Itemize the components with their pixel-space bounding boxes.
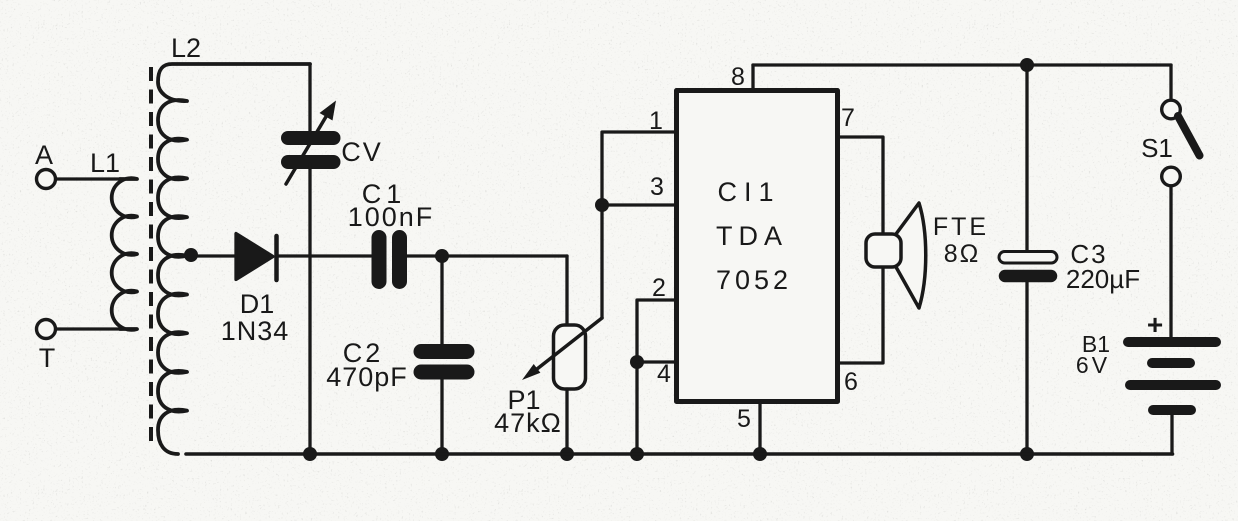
wire S1 top xyxy=(1169,65,1172,100)
wire pin7 to speaker xyxy=(839,137,883,235)
capacitor C2 xyxy=(421,352,467,373)
svg-text:4: 4 xyxy=(657,360,671,388)
speaker FTE horn xyxy=(896,203,926,308)
wire bottom rail xyxy=(186,452,1173,456)
wire C2 bottom xyxy=(440,379,443,454)
wire CV top xyxy=(308,64,311,132)
wire P1 bottom xyxy=(565,389,568,454)
P1 wiper line xyxy=(537,318,602,369)
diode D1 xyxy=(236,234,273,280)
svg-text:2: 2 xyxy=(652,274,666,302)
svg-text:3: 3 xyxy=(650,173,664,201)
svg-text:1N34: 1N34 xyxy=(221,316,290,346)
svg-text:47kΩ: 47kΩ xyxy=(494,408,562,438)
CV arrow xyxy=(286,115,327,184)
wire pin2 net xyxy=(637,300,676,454)
svg-text:CI1: CI1 xyxy=(717,177,780,207)
svg-text:A: A xyxy=(35,140,53,170)
junction dot L2 tap xyxy=(184,248,198,262)
svg-text:1: 1 xyxy=(649,107,663,135)
wire pin8 xyxy=(751,65,754,88)
capacitor C1 xyxy=(379,238,400,282)
capacitor CV plates xyxy=(288,138,334,162)
svg-text:TDA: TDA xyxy=(716,221,788,251)
svg-text:+: + xyxy=(1147,309,1163,340)
wire pin6 to speaker xyxy=(839,266,883,363)
inductor L2 xyxy=(158,64,310,454)
wire C3 bottom xyxy=(1025,282,1028,454)
svg-text:6: 6 xyxy=(844,368,858,396)
svg-text:FTE: FTE xyxy=(933,213,989,241)
wire T to L1 xyxy=(56,327,122,330)
potentiometer P1 body xyxy=(554,325,586,389)
svg-text:7: 7 xyxy=(841,104,855,132)
wire pin3 xyxy=(602,203,676,206)
wire P1 top xyxy=(565,256,568,325)
svg-text:S1: S1 xyxy=(1141,133,1173,163)
wire S1 to B1 xyxy=(1169,186,1172,337)
wire pin1 net xyxy=(602,132,676,205)
inductor L1 xyxy=(112,178,137,330)
svg-text:220µF: 220µF xyxy=(1066,264,1140,294)
svg-text:L2: L2 xyxy=(171,33,201,63)
L2 tap wire xyxy=(186,254,238,257)
wire D1 to C1 xyxy=(277,254,371,257)
wire C2 top xyxy=(440,256,443,345)
speaker FTE box xyxy=(866,234,901,267)
junction dot pin4 xyxy=(630,355,644,369)
svg-text:8Ω: 8Ω xyxy=(944,240,981,268)
core dashed line xyxy=(149,67,153,448)
svg-text:7052: 7052 xyxy=(716,265,792,295)
svg-text:100nF: 100nF xyxy=(348,202,435,232)
battery B1 plates xyxy=(1128,342,1216,410)
svg-text:6V: 6V xyxy=(1076,352,1110,378)
svg-text:T: T xyxy=(39,343,56,373)
svg-text:L1: L1 xyxy=(90,148,120,178)
wire CV bottom to rail xyxy=(308,164,311,454)
D1 cathode bar xyxy=(274,236,279,280)
junction dot pin5 rail xyxy=(753,447,767,461)
junction dot CV rail xyxy=(303,447,317,461)
junction dot C2 bottom xyxy=(435,447,449,461)
wire A to L1 xyxy=(56,177,120,180)
terminal A xyxy=(37,170,56,189)
junction dot pin2 rail xyxy=(630,447,644,461)
terminal T xyxy=(37,320,56,339)
wire top rail xyxy=(753,63,1171,66)
wire C3 top xyxy=(1025,65,1028,252)
op-amp U1 CI1 box xyxy=(677,91,838,402)
svg-text:8: 8 xyxy=(731,63,745,91)
wire B1 bottom xyxy=(1170,414,1173,454)
svg-text:470pF: 470pF xyxy=(326,362,408,392)
capacitor C3 plus plate xyxy=(999,252,1057,264)
junction dot C3 rail xyxy=(1020,447,1034,461)
capacitor C3 minus plate xyxy=(1005,270,1051,283)
svg-text:D1: D1 xyxy=(240,289,275,319)
junction dot pin3 xyxy=(595,198,609,212)
wire pin5 xyxy=(758,403,761,454)
switch S1 bottom contact xyxy=(1162,167,1181,186)
junction dot top rail C3 xyxy=(1020,58,1034,72)
switch S1 lever xyxy=(1178,116,1200,156)
wire pin4 xyxy=(637,360,676,363)
switch S1 top contact xyxy=(1162,100,1181,119)
wire C1 to P1 xyxy=(407,254,567,257)
svg-text:CV: CV xyxy=(341,137,383,167)
wire wiper vertical xyxy=(600,205,603,318)
junction dot C2 top xyxy=(435,249,449,263)
junction dot P1 bottom xyxy=(560,447,574,461)
P1 wiper arrowhead xyxy=(522,364,540,380)
CV arrowhead xyxy=(320,101,337,121)
svg-text:5: 5 xyxy=(737,405,751,433)
